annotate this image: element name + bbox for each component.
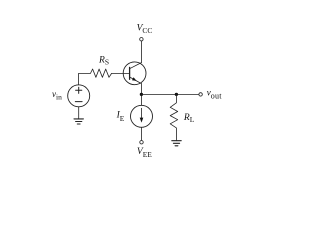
node RL branch (175, 93, 178, 96)
resistor R_L (170, 94, 178, 140)
svg-text:vout: vout (207, 88, 223, 101)
resistor R_S (79, 69, 112, 77)
current source I_E (131, 105, 153, 127)
svg-text:VCC: VCC (137, 23, 153, 35)
wire emitter to vout (141, 93, 199, 95)
source v_in (68, 85, 90, 107)
wire base (112, 73, 130, 75)
wire emitter down (140, 84, 142, 106)
svg-text:vin: vin (52, 89, 62, 102)
wire vin to RS (78, 74, 80, 85)
svg-text:RS: RS (98, 56, 109, 67)
svg-text:RL: RL (183, 113, 195, 124)
terminal VCC (140, 38, 143, 41)
ground RL (172, 141, 181, 146)
terminal VEE (140, 141, 143, 144)
svg-text:IE: IE (116, 111, 125, 123)
svg-text:VEE: VEE (137, 147, 152, 159)
transistor Q1 (123, 62, 146, 85)
wire IE to VEE (141, 127, 143, 140)
wire collector to VCC (140, 41, 142, 63)
wire vin to ground (78, 107, 80, 119)
node emitter (140, 93, 143, 96)
ground vin (74, 119, 83, 124)
terminal vout (199, 93, 202, 96)
